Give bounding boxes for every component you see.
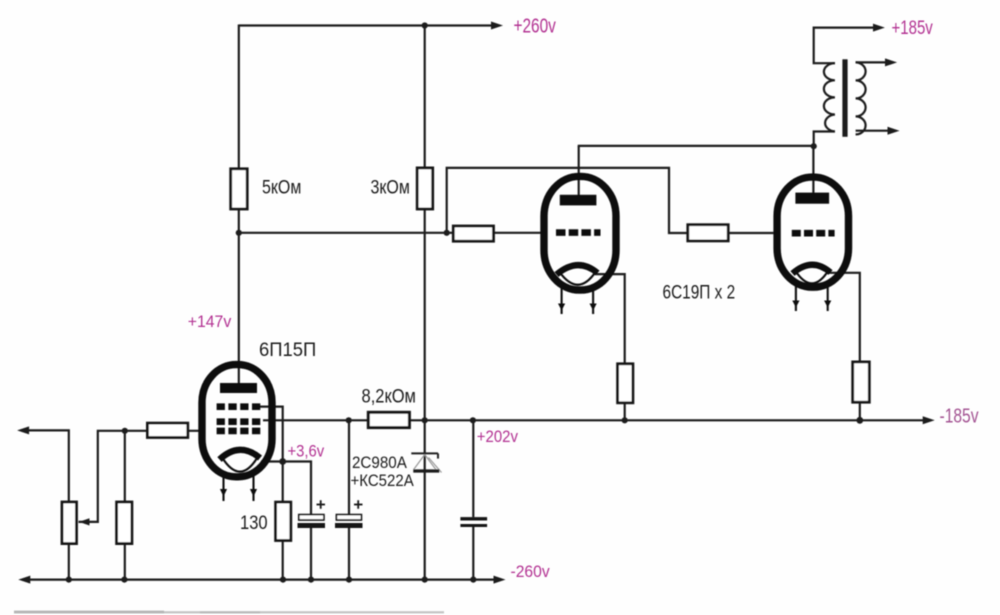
svg-text:+КС522А: +КС522А [351,472,415,490]
wire 3kOm top drop [424,26,426,168]
node cap2 bottom [346,577,352,583]
resistor grid tube2 [688,225,728,241]
node cath1 bottom [622,417,628,423]
heater lead right [252,472,254,501]
wire pentode g2 tap [259,407,283,462]
wire riser x447 [447,168,688,233]
arrow bottom rail left [18,576,30,584]
node pentode cathode [279,458,286,465]
svg-text:2С980А: 2С980А [352,454,407,472]
node +260/3kOm [422,22,428,28]
wire grid-leak resistor bottom [124,544,126,580]
resistor 130 [276,502,291,540]
wire 130 resistor drop [282,462,284,503]
wire cap3 top lead [472,420,474,517]
resistor cathode tube1 [618,364,633,403]
node cap2 top [346,417,352,423]
arrow secondary top [885,58,897,66]
node transformer/anodes [811,143,817,149]
heater lead left [222,472,224,501]
svg-text:+260v: +260v [514,14,556,36]
wire anode link rail y146 [578,145,814,147]
heater lead right [592,287,594,314]
primary coil [824,63,835,131]
wire tube2 anode top [812,146,814,196]
wire input resistor to pentode [188,430,204,432]
svg-text:-185v: -185v [940,405,979,427]
wire pot bottom [68,544,70,580]
wire secondary bottom lead [856,130,890,132]
resistor 3kOm [417,168,433,209]
node input grid [122,428,128,434]
wire transformer primary bottom [814,132,835,147]
node gridleak bottom [121,577,127,583]
potentiometer [62,502,77,544]
wire -260v bottom rail [27,578,497,580]
wire 130 resistor bottom [282,541,284,580]
grid row 3 [217,428,261,435]
svg-text:6П15П: 6П15П [259,339,316,360]
node cap1 bottom [308,577,314,583]
resistor cathode tube2 [853,362,870,402]
cathode arch [220,450,261,460]
wire secondary top lead [856,61,888,63]
wire tube1 cathode [595,274,625,364]
resistor grid leak [117,502,132,544]
node 5kOm bottom [236,230,242,236]
wire input left segment [26,430,69,502]
wire pentode cathode row [261,462,311,515]
wire +260v rail [239,24,494,26]
resistor 8,2kOm [368,412,409,427]
arrow pot wiper [79,518,90,525]
wire 5kOm top drop [238,25,240,169]
arrow +185v [873,24,885,32]
capacitor C2 electrolytic [335,500,363,528]
heater arc [560,272,596,285]
heater lead right [827,285,829,311]
resistor input grid [147,423,187,437]
grid row 2 [217,418,261,425]
core [842,59,847,137]
node pot bottom [66,577,72,583]
svg-text:-260v: -260v [511,563,550,581]
wire grid resistor2 to tube2 [728,232,779,234]
wire pot wiper riser [79,431,148,522]
wire grid resistor to tube1 [494,232,547,234]
wire cap2 bottom lead [348,528,350,580]
scan smudge bottom [14,611,444,614]
arrow secondary bottom [888,127,900,135]
transformer T1 [824,59,866,137]
node 130 bottom [280,577,286,583]
anode bar [795,193,829,204]
capacitor C1 electrolytic [298,500,326,528]
wire cap3 bottom lead [472,527,474,580]
svg-text:+185v: +185v [892,17,934,38]
svg-text:3кОм: 3кОм [371,176,410,198]
svg-text:130: 130 [240,512,268,533]
wire tube2 cathode resistor bottom [859,402,861,420]
tube 6S19P #2 [777,177,848,311]
wire cap2 top lead [348,420,350,514]
grid row 1 [217,403,261,410]
wire tube2 cathode [829,273,860,362]
arrow -260v [494,576,506,584]
arrow input left [17,426,29,434]
heater lead left [795,285,797,311]
svg-text:+3,6v: +3,6v [288,443,325,461]
arrow -185v [923,416,935,424]
svg-text:5кОм: 5кОм [262,176,301,198]
anode bar [220,383,257,393]
wire grid-leak resistor drop [124,431,126,502]
svg-text:+147v: +147v [188,313,232,331]
wire tube1 cathode resistor bottom [624,403,626,421]
wire 3kOm long vertical [424,209,426,580]
heater arc [795,270,829,283]
wire node row y233 left [239,232,453,234]
resistor 5kOm [231,169,248,209]
grid dashes [792,230,835,237]
cathode arch [557,265,598,274]
heater lead left [561,287,563,314]
wire main -185v line [263,419,926,421]
tube 6S19P #1 [544,176,616,314]
anode bar [560,195,597,206]
svg-text:6С19П x 2: 6С19П x 2 [663,281,736,303]
capacitor C3 [460,517,487,527]
wire cap1 bottom lead [310,528,312,580]
node cap3 bottom [470,577,476,583]
zener stack 2C980A+KC522A [411,453,441,472]
resistor grid tube1 [453,226,493,241]
node cap3 top [470,417,476,423]
node grid riser [444,230,450,236]
wire +185v lead [814,27,876,29]
wire tube1 anode top [578,146,580,198]
tube 6P15P (pentode) [202,365,272,501]
node cath2 bottom [856,417,863,424]
heater arc [222,457,258,471]
wire 5kOm bottom to pentode anode [238,209,240,386]
secondary coil [856,62,866,134]
wire transformer primary left [814,27,835,64]
node zener bottom [422,577,428,583]
arrow +260v [491,22,503,30]
grid dashes [556,229,601,236]
cathode arch [793,265,831,274]
svg-text:+202v: +202v [477,428,518,446]
svg-text:8,2кОм: 8,2кОм [362,385,416,406]
node zener top [422,417,428,423]
